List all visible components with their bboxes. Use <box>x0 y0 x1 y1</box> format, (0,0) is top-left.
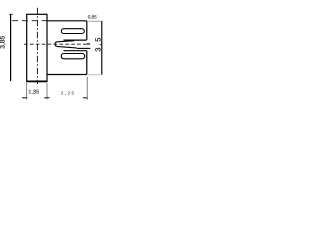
vertical center line <box>36 8 38 84</box>
right dimension text 3,5 <box>95 36 103 52</box>
top-right text 0,85 <box>88 15 97 20</box>
svg-text:2,25: 2,25 <box>61 91 75 96</box>
svg-text:0,85: 0,85 <box>88 15 97 20</box>
svg-text:3,5: 3,5 <box>95 36 103 52</box>
bottom extension line left <box>26 83 28 100</box>
hidden edge dashed line <box>12 20 47 22</box>
bottom dimension tick right <box>83 97 88 99</box>
bottom-right extension line <box>88 74 102 76</box>
middle slot top edge <box>57 41 75 42</box>
bottom extension line right <box>86 77 88 100</box>
part: block thick bottom edge <box>27 80 47 82</box>
part: right edge lower segment <box>86 51 88 75</box>
bottom extension line middle <box>46 83 48 99</box>
top slot <box>61 29 84 34</box>
contact tab bottom edge <box>77 47 91 49</box>
middle slot bottom edge <box>57 46 77 48</box>
part: right portion bottom edge <box>47 74 87 76</box>
bottom dimension tick left <box>22 97 27 99</box>
bottom-middle dimension text 2,25 <box>61 91 75 96</box>
bottom dimension tick middle <box>44 97 49 99</box>
part: right edge upper segment <box>86 21 88 40</box>
left dimension text 3,85 <box>0 36 7 49</box>
right dimension line <box>101 21 103 74</box>
bottom-left dimension text 1,35 <box>28 89 39 95</box>
top-right extension line <box>88 20 102 22</box>
lower fold line <box>64 50 87 52</box>
background <box>0 0 110 110</box>
middle slot left cap <box>55 42 57 47</box>
left dimension line <box>9 14 13 81</box>
part outline: left block <box>27 14 47 81</box>
svg-text:3,85: 3,85 <box>0 36 7 49</box>
upper fold line <box>64 39 87 41</box>
contact tab top stub <box>87 43 90 45</box>
svg-text:1,35: 1,35 <box>28 89 39 95</box>
part: right portion top edge <box>47 20 87 22</box>
horizontal center line <box>24 43 90 45</box>
bottom slot <box>61 54 85 59</box>
